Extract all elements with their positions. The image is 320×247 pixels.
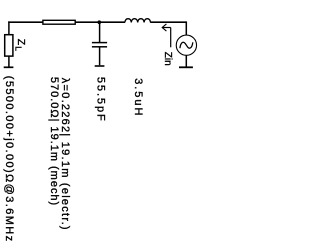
ground terminal tick ZL xyxy=(4,66,14,68)
inductor L1 (4 humps) xyxy=(125,19,151,23)
arrow Zin shaft horizontal xyxy=(162,27,171,29)
transmission line TL1 (series box) xyxy=(43,20,75,24)
svg-text:3.5uH: 3.5uH xyxy=(132,78,144,115)
wire capacitor top xyxy=(99,22,101,42)
arrow Zin head xyxy=(162,24,166,31)
wire right vertical xyxy=(185,21,187,35)
wire capacitor bottom xyxy=(99,47,101,65)
wire top horizontal xyxy=(8,21,125,23)
source V1 sine xyxy=(180,42,193,48)
label ZL xyxy=(14,39,27,52)
svg-text:570.0Ω| 19.1m (mech): 570.0Ω| 19.1m (mech) xyxy=(48,77,60,205)
ground terminal tick capacitor xyxy=(95,65,105,67)
node junction dot xyxy=(98,20,102,24)
resistor ZL (load) xyxy=(5,35,13,56)
wire source bottom xyxy=(185,55,187,66)
svg-text:Z: Z xyxy=(15,39,27,46)
wire ZL bottom xyxy=(8,56,10,66)
source V1 circle xyxy=(176,35,196,55)
wire left vertical xyxy=(8,21,10,35)
capacitor C1 plate top xyxy=(92,42,107,44)
svg-text:Zin: Zin xyxy=(162,52,173,66)
svg-text:55.5pF: 55.5pF xyxy=(95,77,107,121)
svg-text:λ=0.2262| 19.1m (electr.): λ=0.2262| 19.1m (electr.) xyxy=(59,78,71,230)
capacitor C1 plate bottom xyxy=(92,46,107,48)
svg-text:(5500.00+j0.00)Ω@3.6MHz: (5500.00+j0.00)Ω@3.6MHz xyxy=(3,76,15,241)
arrow Zin shaft vertical xyxy=(170,28,172,48)
ground terminal tick source xyxy=(179,66,193,68)
svg-text:L: L xyxy=(14,46,24,51)
